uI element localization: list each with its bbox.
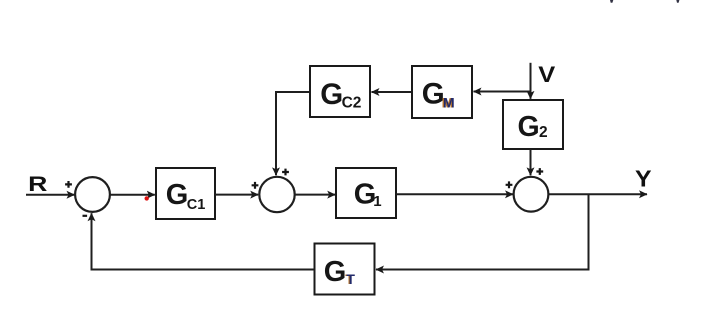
svg-text:C2: C2 <box>342 95 362 112</box>
summing junction S3 <box>514 177 549 212</box>
cropped text speck top-right <box>676 0 679 3</box>
summing junction S2 <box>259 177 294 212</box>
wire S3 to output Y <box>548 193 647 195</box>
wire GT output left and up into S1 <box>92 213 315 269</box>
svg-text:Y: Y <box>635 166 652 192</box>
svg-text:C1: C1 <box>187 197 206 213</box>
wire GM to GC2 <box>372 91 413 93</box>
minus sign at S1 bottom input <box>83 215 88 217</box>
node Y label <box>635 166 652 192</box>
block G2 <box>503 100 563 149</box>
summing junction S1 <box>75 177 110 212</box>
node R label <box>28 172 47 196</box>
cropped text speck top-left <box>610 0 613 3</box>
svg-text:V: V <box>538 63 555 88</box>
svg-text:M: M <box>443 95 455 111</box>
block GC1 <box>156 168 215 219</box>
svg-text:1: 1 <box>373 193 381 210</box>
wire V line to GM <box>474 91 531 93</box>
wire feedback takeoff down and left into GT <box>376 194 589 269</box>
red dot node <box>145 196 149 200</box>
plus sign at S2 left input <box>252 182 259 189</box>
block GT <box>315 244 375 295</box>
plus sign at S3 left input <box>506 181 513 188</box>
svg-text:G: G <box>166 179 189 211</box>
wire GC2 output down into S2 <box>276 92 310 175</box>
svg-text:G: G <box>320 78 343 111</box>
block GM <box>412 66 472 118</box>
svg-text:G: G <box>324 256 347 288</box>
wire G1 to summing junction S3 <box>396 193 513 195</box>
svg-text:G: G <box>518 111 540 143</box>
svg-text:T: T <box>346 271 355 287</box>
wire S2 to G1 <box>295 194 336 196</box>
block G1 <box>336 168 396 218</box>
node V label <box>538 63 555 88</box>
plus sign at S1 left input <box>65 181 72 188</box>
svg-text:2: 2 <box>539 124 548 141</box>
wire GC1 to summing junction S2 <box>215 194 258 196</box>
svg-text:R: R <box>28 172 47 196</box>
plus sign at S2 top input <box>282 169 289 176</box>
block GC2 <box>310 66 370 117</box>
node V input line into G2 <box>530 63 532 99</box>
wire S1 to GC1 with red dot <box>110 194 155 196</box>
wire G2 down into S3 <box>530 149 532 175</box>
plus sign at S3 top input <box>536 168 543 175</box>
wire R input arrow into summing junction S1 <box>26 194 75 196</box>
